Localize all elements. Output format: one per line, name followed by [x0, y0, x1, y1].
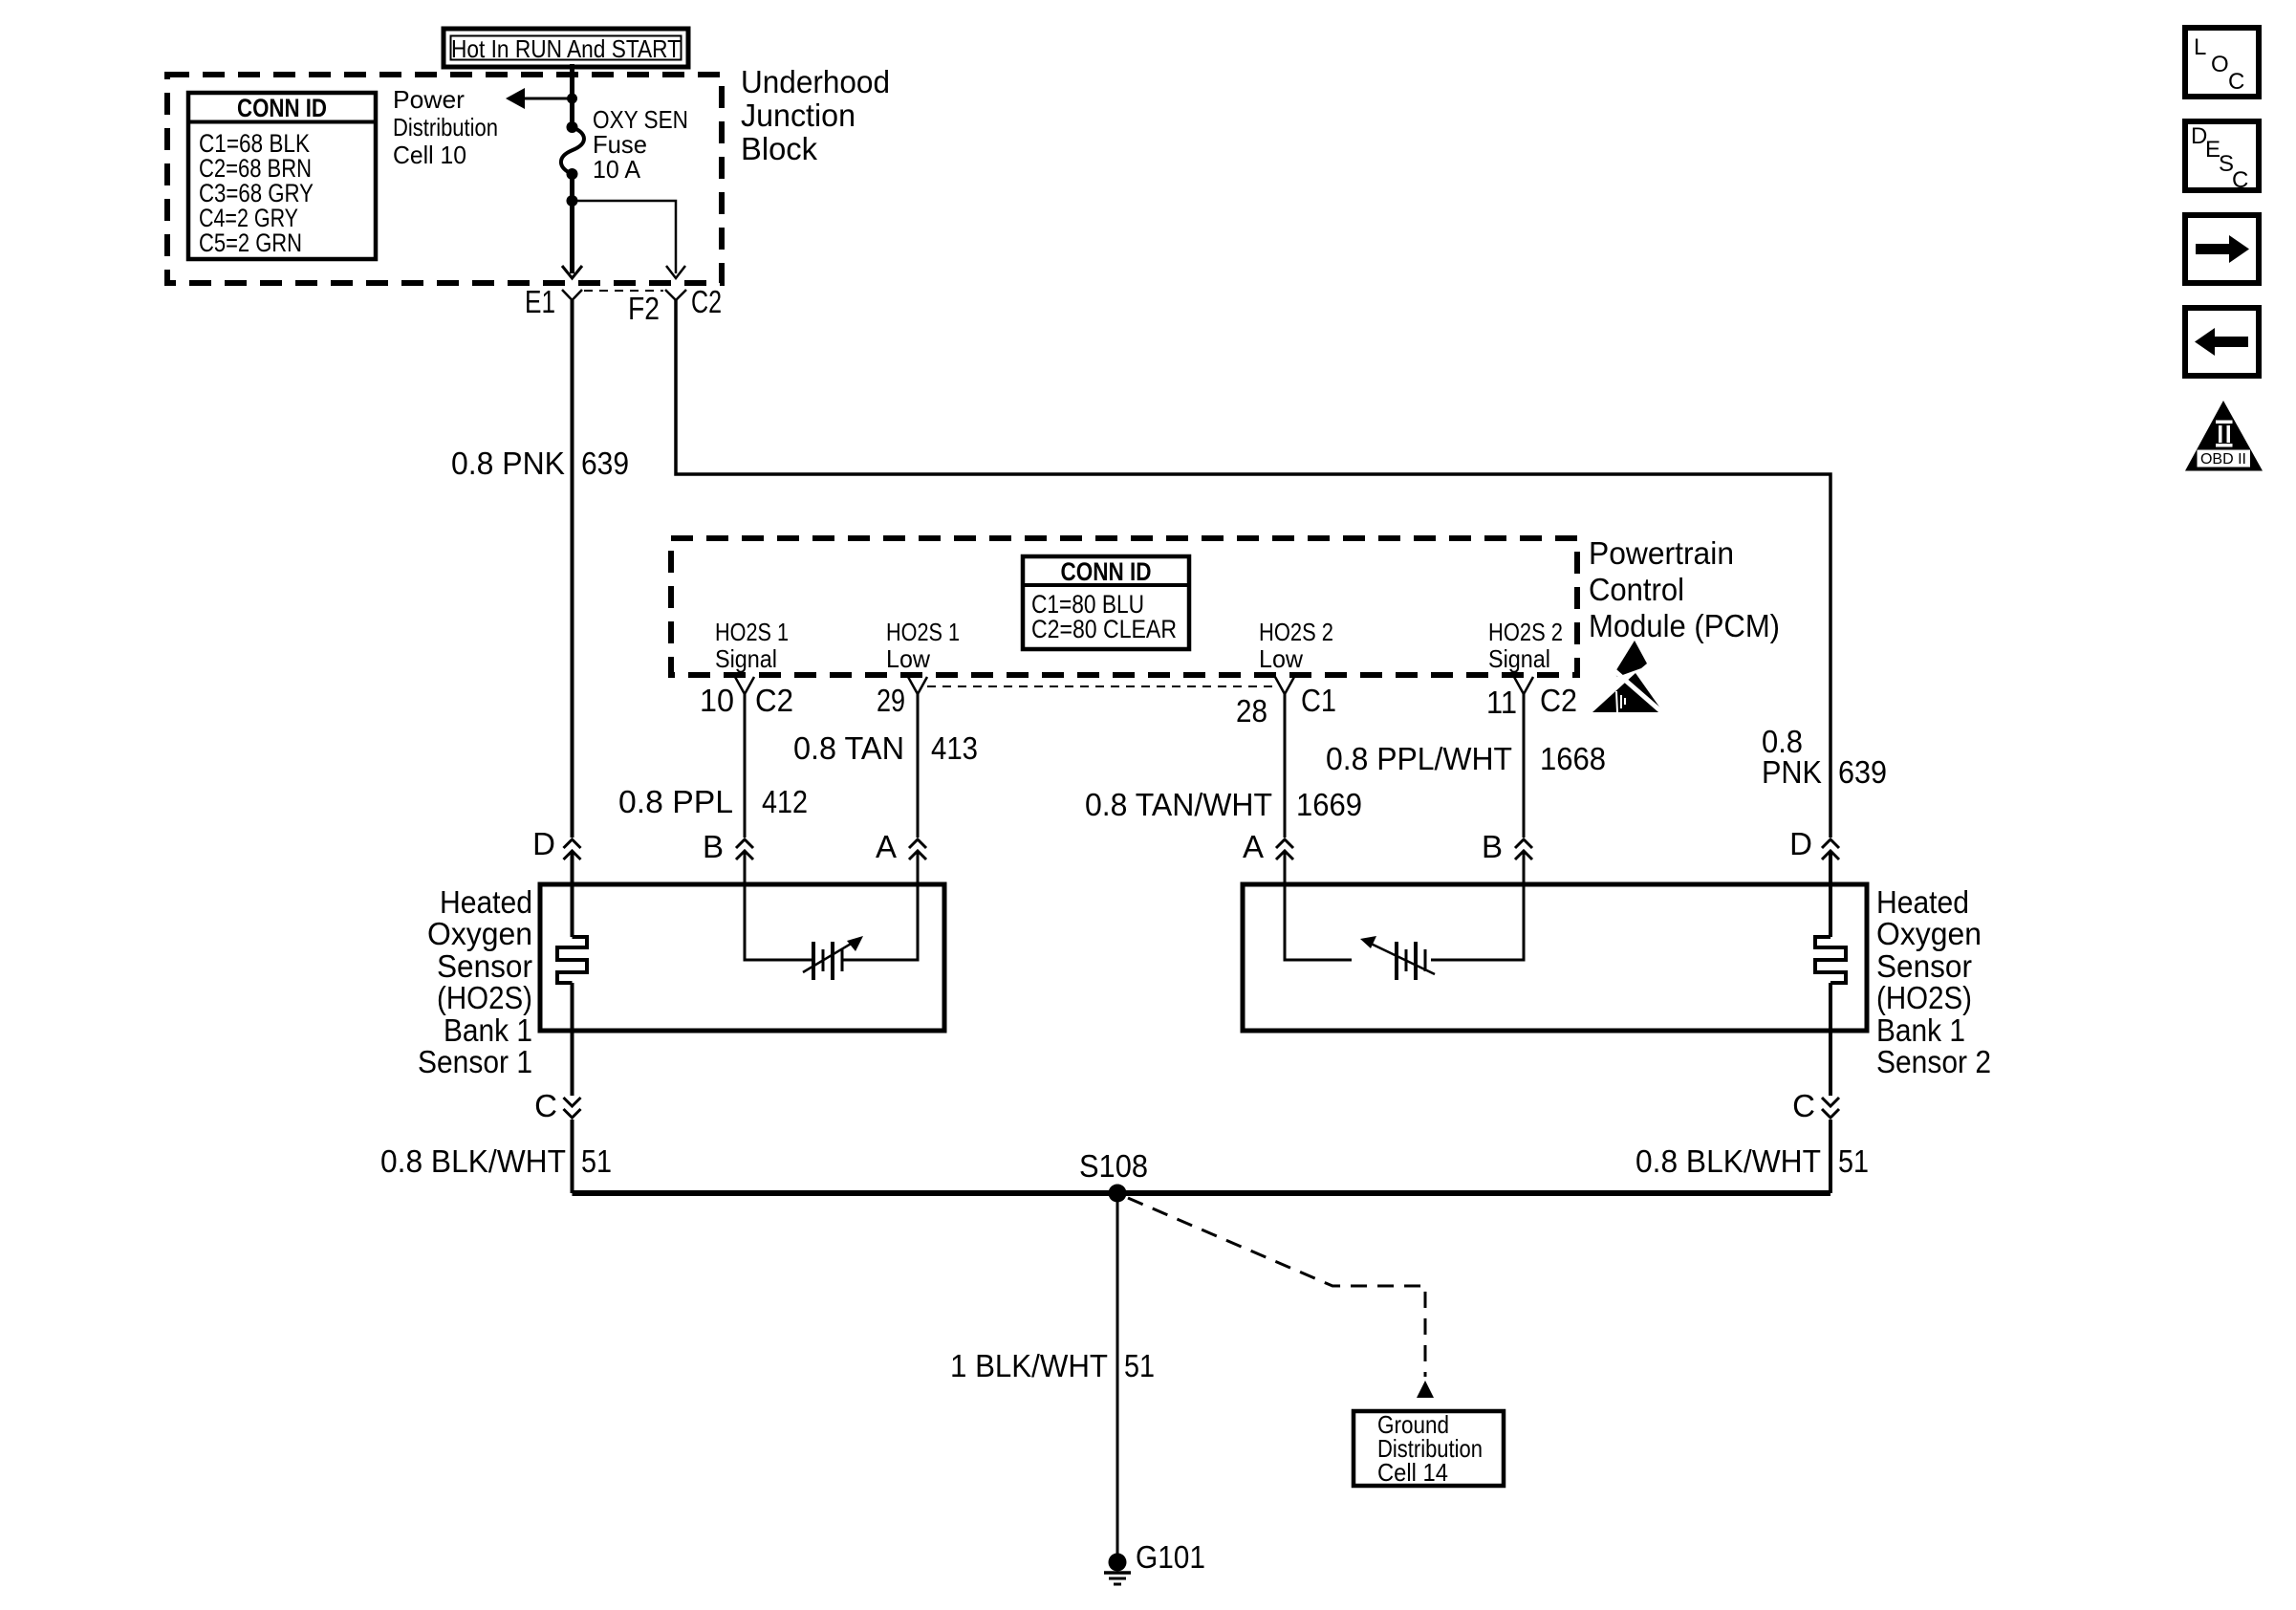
svg-text:0.8 BLK/WHT: 0.8 BLK/WHT [1635, 1143, 1821, 1179]
svg-text:1 BLK/WHT: 1 BLK/WHT [950, 1348, 1108, 1383]
wire pin10 to B (0.8 PPL 412) [744, 694, 747, 838]
svg-text:Distribution: Distribution [393, 113, 498, 141]
ESD sensitive symbol [1592, 641, 1671, 720]
wire label 0.8 TAN 413 [793, 730, 978, 766]
svg-text:413: 413 [931, 730, 978, 766]
wire B into left box [745, 853, 812, 960]
connector E1 [525, 284, 582, 319]
pin 29 connector [877, 677, 927, 718]
svg-text:CONN ID: CONN ID [1061, 557, 1152, 586]
svg-text:Cell 10: Cell 10 [393, 141, 466, 169]
svg-text:C: C [2232, 167, 2248, 193]
power distribution cell 10 label [393, 85, 498, 169]
svg-text:28: 28 [1236, 693, 1267, 729]
wire label 1 BLK/WHT 51 [950, 1348, 1155, 1383]
svg-text:Powertrain: Powertrain [1589, 535, 1734, 571]
ground G101 [1104, 1539, 1205, 1584]
pin 28 connector C1 [1236, 677, 1336, 729]
svg-text:C1: C1 [1301, 683, 1336, 718]
wire F2 to right D (0.8 PNK 639) [676, 300, 1830, 838]
wire D into right box [1829, 853, 1832, 937]
pin 10 connector C2 [700, 677, 793, 718]
connector C (right) [1792, 1088, 1839, 1123]
svg-text:Low: Low [1259, 644, 1303, 673]
ground bus wire [573, 1190, 1831, 1196]
CONN ID table (underhood junction block) [188, 93, 376, 259]
oxygen sensor cell (right) [1360, 936, 1435, 980]
svg-text:Heated: Heated [440, 884, 532, 920]
wire C to ground bus [571, 1120, 574, 1193]
svg-text:Hot In RUN And START: Hot In RUN And START [451, 34, 681, 63]
svg-text:E1: E1 [525, 284, 555, 319]
svg-text:Control: Control [1589, 572, 1684, 607]
svg-text:0.8 PPL/WHT: 0.8 PPL/WHT [1326, 741, 1512, 776]
underhood junction block label [741, 64, 890, 166]
svg-text:C2: C2 [691, 284, 722, 319]
svg-text:Signal: Signal [715, 644, 777, 673]
PCM dashed box [671, 538, 1577, 675]
svg-text:Block: Block [741, 131, 817, 166]
svg-text:S108: S108 [1079, 1148, 1148, 1184]
svg-text:Signal: Signal [1488, 644, 1550, 673]
svg-text:0.8 PPL: 0.8 PPL [618, 784, 733, 819]
icon forward arrow box [2185, 215, 2259, 283]
wire heater to box bottom and C [571, 983, 574, 1096]
connector D (left HO2S) [532, 826, 580, 861]
connector body dashed 29-28 [927, 685, 1276, 687]
svg-text:Module (PCM): Module (PCM) [1589, 608, 1780, 643]
svg-text:C2: C2 [755, 683, 793, 718]
HO2S bank 1 sensor 1 label [418, 884, 532, 1079]
svg-text:29: 29 [877, 683, 905, 718]
heater element (right) [1815, 937, 1846, 983]
svg-text:0.8 PNK: 0.8 PNK [451, 446, 565, 481]
HO2S bank 1 sensor 2 label [1876, 884, 1991, 1079]
wire label 0.8 PPL/WHT 1668 [1326, 741, 1606, 776]
svg-text:Sensor: Sensor [1876, 948, 1972, 984]
arrowhead into C2 [666, 266, 685, 278]
wire S108 to G101 (1 BLK/WHT 51) [1116, 1193, 1119, 1562]
svg-text:C: C [1792, 1088, 1815, 1123]
PCM label Powertrain Control Module [1589, 535, 1780, 643]
wire label 0.8 BLK/WHT 51 (right) [1635, 1143, 1869, 1179]
svg-text:OBD II: OBD II [2200, 451, 2246, 468]
wire 0.8 PNK 639 (left) [571, 300, 574, 838]
junction node [567, 195, 578, 207]
HO2S bank 1 sensor 2 box [1243, 884, 1867, 1031]
arrow to power distribution [506, 88, 577, 109]
pin label HO2S 1 Signal [715, 618, 789, 673]
arrowhead into E1 [562, 266, 582, 278]
svg-text:639: 639 [581, 446, 629, 481]
svg-text:51: 51 [1838, 1143, 1869, 1179]
svg-text:1669: 1669 [1296, 787, 1362, 822]
HO2S bank 1 sensor 1 box [540, 884, 944, 1031]
svg-text:Sensor 1: Sensor 1 [418, 1044, 532, 1079]
svg-text:C5=2 GRN: C5=2 GRN [199, 228, 302, 257]
svg-text:C: C [2228, 69, 2244, 95]
splice S108 [1079, 1148, 1148, 1203]
icon OBD II triangle [2185, 401, 2263, 471]
connector B (left) [703, 829, 753, 864]
wire label 0.8 PNK 639 [451, 446, 629, 481]
svg-text:1668: 1668 [1540, 741, 1606, 776]
svg-text:0.8 TAN/WHT: 0.8 TAN/WHT [1085, 787, 1272, 822]
svg-text:51: 51 [581, 1143, 612, 1179]
wire from fuse to junction [570, 174, 574, 273]
svg-text:(HO2S): (HO2S) [437, 980, 532, 1015]
wire label 0.8 TAN/WHT 1669 [1085, 787, 1362, 822]
connector F2 [628, 290, 686, 326]
svg-text:10 A: 10 A [593, 155, 641, 184]
wire pin28 to A right (0.8 TAN/WHT 1669) [1284, 694, 1287, 838]
icon DESC box [2185, 121, 2259, 193]
svg-text:A: A [876, 829, 897, 864]
svg-text:51: 51 [1124, 1348, 1155, 1383]
wire branch to C2 feed [573, 201, 677, 273]
connector body dashed E1-F2 [584, 290, 663, 292]
wire label 0.8 BLK/WHT 51 (left) [380, 1143, 612, 1179]
connector A (left) [876, 829, 926, 864]
svg-text:HO2S 1: HO2S 1 [715, 618, 789, 646]
svg-text:412: 412 [762, 784, 808, 819]
wire A into left box [843, 853, 918, 960]
svg-text:L: L [2194, 34, 2206, 60]
wire B into right box [1431, 853, 1524, 960]
svg-text:HO2S 2: HO2S 2 [1488, 618, 1563, 646]
svg-text:Junction: Junction [741, 98, 856, 133]
svg-text:Bank 1: Bank 1 [1876, 1012, 1965, 1048]
svg-text:Oxygen: Oxygen [1876, 916, 1982, 951]
wire label 0.8 PNK 639 (right) [1762, 724, 1887, 790]
svg-text:C: C [534, 1088, 557, 1123]
wire label 0.8 PPL 412 [618, 784, 808, 819]
pin label HO2S 1 Low [886, 618, 960, 673]
connector C (left) [534, 1088, 580, 1123]
underhood junction block dashed box [167, 75, 722, 283]
connector A (right) [1243, 829, 1293, 864]
svg-text:11: 11 [1486, 685, 1517, 720]
svg-text:HO2S 1: HO2S 1 [886, 618, 960, 646]
connector B (right) [1482, 829, 1532, 864]
svg-text:Oxygen: Oxygen [427, 916, 532, 951]
svg-text:Cell 14: Cell 14 [1377, 1458, 1448, 1487]
wire D into left box [571, 853, 574, 937]
svg-text:B: B [1482, 829, 1503, 864]
wire C to ground bus (right) [1829, 1120, 1832, 1193]
svg-text:Bank 1: Bank 1 [444, 1012, 532, 1048]
CONN ID table (PCM) [1023, 556, 1189, 649]
svg-text:639: 639 [1838, 754, 1887, 790]
icon LOC box [2185, 28, 2259, 97]
oxygen sensor cell (left) [803, 936, 863, 980]
pin 11 connector C2 [1486, 677, 1577, 720]
svg-text:C2=80 CLEAR: C2=80 CLEAR [1031, 615, 1177, 643]
svg-text:PNK: PNK [1762, 754, 1822, 790]
svg-text:D: D [1789, 826, 1812, 861]
connector D (right) [1789, 826, 1839, 861]
wire A into right box [1285, 853, 1352, 960]
wire pin29 to A (0.8 TAN 413) [917, 694, 920, 838]
svg-text:D: D [532, 826, 555, 861]
svg-text:CONN ID: CONN ID [237, 94, 327, 122]
wire heater to C (right) [1829, 983, 1832, 1096]
svg-text:F2: F2 [628, 291, 660, 326]
svg-text:Underhood: Underhood [741, 64, 890, 99]
fuse OXY SEN 10 A [561, 105, 688, 184]
svg-text:Low: Low [886, 644, 930, 673]
wire pin11 to B right (0.8 PPL/WHT 1668) [1523, 694, 1526, 838]
power source box Hot In RUN And START [444, 29, 688, 67]
svg-text:10: 10 [700, 683, 734, 718]
ground distribution cell 14 box [1354, 1410, 1504, 1487]
pin label HO2S 2 Signal [1488, 618, 1563, 673]
svg-text:0.8 TAN: 0.8 TAN [793, 730, 904, 766]
svg-text:Power: Power [393, 85, 465, 114]
svg-text:HO2S 2: HO2S 2 [1259, 618, 1333, 646]
svg-text:O: O [2211, 52, 2229, 77]
svg-text:C2: C2 [1540, 683, 1577, 718]
svg-text:(HO2S): (HO2S) [1876, 980, 1972, 1015]
svg-text:A: A [1243, 829, 1264, 864]
svg-text:G101: G101 [1136, 1539, 1205, 1575]
dashed reference S108 to ground distribution [1128, 1198, 1434, 1398]
svg-text:B: B [703, 829, 724, 864]
pin label HO2S 2 Low [1259, 618, 1333, 673]
svg-text:0.8 BLK/WHT: 0.8 BLK/WHT [380, 1143, 566, 1179]
svg-text:Heated: Heated [1876, 884, 1969, 920]
wire from hot feed down [570, 64, 574, 127]
svg-text:Sensor: Sensor [437, 948, 532, 984]
svg-text:Sensor 2: Sensor 2 [1876, 1044, 1991, 1079]
icon back arrow box [2185, 308, 2259, 376]
heater element (left) [557, 937, 587, 983]
